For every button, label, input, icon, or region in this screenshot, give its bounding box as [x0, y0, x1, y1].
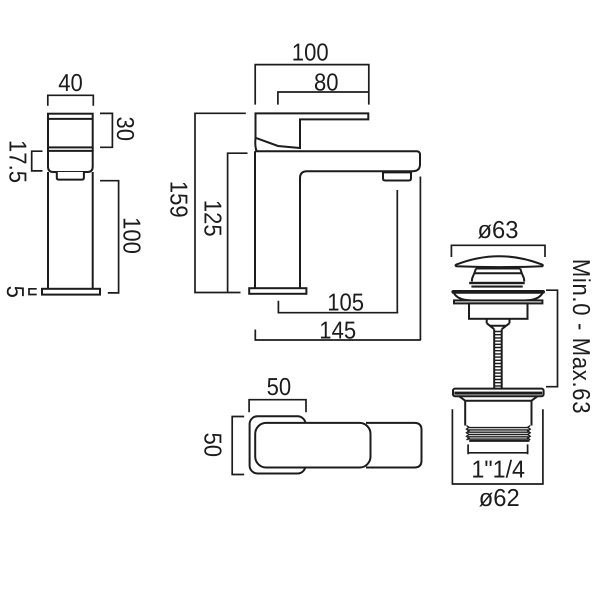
svg-text:17.5: 17.5: [3, 140, 30, 183]
rod thread rungs: [494, 332, 502, 386]
bracket Min.0-Max.63: [546, 290, 558, 387]
extension line 145 right: [419, 177, 421, 341]
svg-text:125: 125: [199, 200, 226, 237]
joint line: [48, 147, 93, 151]
cap chamfers: [459, 396, 537, 400]
svg-text:40: 40: [58, 70, 83, 97]
waste neck: [472, 269, 525, 282]
dim line 100 (staple): [255, 65, 369, 105]
dim line 80: [278, 92, 369, 105]
handle top inner line: [48, 118, 93, 120]
svg-text:30: 30: [111, 116, 138, 141]
base plate side view: [42, 289, 100, 295]
handle skirt curve: [255, 138, 256, 151]
waste lower body sides: [465, 401, 531, 426]
aerator box: [383, 172, 411, 180]
waste collar and cone: [487, 319, 510, 329]
flange trumpet curves: [454, 293, 543, 301]
waste dome cap: [456, 256, 543, 267]
dim line 50 top (staple): [249, 400, 306, 413]
waste bottom cap: [453, 389, 544, 397]
dim line 40 (staple): [48, 95, 94, 106]
svg-text:50: 50: [199, 433, 226, 458]
dim line 1"1/4: [468, 444, 527, 454]
waste seal ring 1: [469, 282, 525, 284]
svg-text:105: 105: [327, 289, 364, 316]
waste plate: [454, 300, 542, 303]
bracket 100 left figure: [100, 181, 119, 293]
lever end top view: [366, 423, 422, 468]
extension line 105 right: [396, 190, 398, 313]
cap dark band: [454, 392, 542, 395]
base plate front view: [249, 288, 306, 294]
svg-text:80: 80: [314, 69, 339, 96]
bracket 30: [100, 113, 112, 147]
handle lever front view: [256, 113, 369, 148]
svg-text:100: 100: [292, 40, 329, 67]
bracket 159: [195, 113, 246, 292]
svg-text:5: 5: [1, 286, 28, 298]
dim line 105: [278, 301, 398, 313]
bracket 5: [29, 289, 37, 295]
column sides: [48, 172, 93, 289]
svg-text:ø62: ø62: [479, 485, 520, 512]
svg-text:1"1/4: 1"1/4: [471, 456, 525, 483]
svg-text:Min.0 - Max.63: Min.0 - Max.63: [567, 259, 594, 414]
svg-text:159: 159: [164, 181, 191, 218]
lever grip top view: [255, 423, 370, 468]
thread bottom edge: [469, 440, 529, 442]
waste thread block: [468, 428, 529, 440]
svg-text:50: 50: [267, 374, 292, 401]
svg-text:100: 100: [117, 217, 144, 254]
column left edge: [254, 151, 256, 288]
waste upper body: [469, 303, 528, 318]
bracket 17.5: [32, 151, 43, 171]
dim line 145: [255, 330, 420, 341]
body block rounded bottom: [48, 151, 93, 172]
handle rect side view: [48, 114, 93, 148]
body top, spout right edge and underside: [255, 151, 420, 288]
waste flange disc: [452, 291, 544, 293]
thread jagged edges: [467, 426, 531, 440]
threaded rod: [494, 329, 502, 388]
bracket 125: [228, 153, 248, 292]
spout stub: [57, 172, 84, 180]
svg-text:ø63: ø63: [478, 217, 519, 244]
bracket 50 left: [232, 417, 244, 475]
waste seal ring 2: [471, 286, 522, 288]
body square top view: [250, 416, 306, 473]
svg-text:145: 145: [319, 317, 356, 344]
bracket ø62: [452, 409, 543, 484]
dim line ø63 (staple): [451, 245, 545, 257]
